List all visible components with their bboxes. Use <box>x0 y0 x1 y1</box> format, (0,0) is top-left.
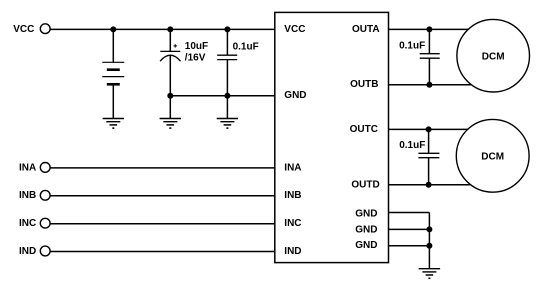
svg-text:OUTB: OUTB <box>350 79 378 90</box>
svg-text:DCM: DCM <box>481 151 504 162</box>
svg-text:IND: IND <box>284 246 301 257</box>
svg-text:VCC: VCC <box>284 24 305 35</box>
svg-text:OUTC: OUTC <box>350 124 378 135</box>
svg-text:OUTD: OUTD <box>351 179 379 190</box>
svg-text:VCC: VCC <box>13 24 34 35</box>
svg-text:0.1uF: 0.1uF <box>399 140 425 151</box>
svg-text:GND: GND <box>355 240 377 251</box>
svg-text:INA: INA <box>19 162 36 173</box>
svg-text:INC: INC <box>284 218 301 229</box>
svg-text:GND: GND <box>355 224 377 235</box>
svg-text:/16V: /16V <box>185 52 206 63</box>
svg-text:0.1uF: 0.1uF <box>399 40 425 51</box>
svg-text:0.1uF: 0.1uF <box>233 42 259 53</box>
svg-text:OUTA: OUTA <box>352 24 380 35</box>
svg-text:DCM: DCM <box>482 51 505 62</box>
svg-text:INB: INB <box>19 190 36 201</box>
svg-text:INA: INA <box>284 162 301 173</box>
svg-text:IND: IND <box>19 246 36 257</box>
svg-text:INC: INC <box>19 218 36 229</box>
svg-text:INB: INB <box>284 190 301 201</box>
svg-text:10uF: 10uF <box>185 41 208 52</box>
svg-text:GND: GND <box>284 90 306 101</box>
svg-text:GND: GND <box>355 208 377 219</box>
